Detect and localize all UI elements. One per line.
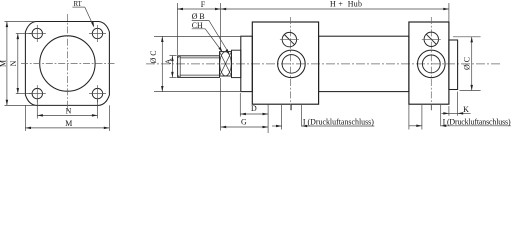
dimension M (bottom) — [25, 105, 109, 130]
svg-text:N: N — [9, 60, 18, 66]
flange plate outline — [25, 22, 109, 106]
hex nut CH — [220, 52, 232, 76]
svg-text:M: M — [0, 60, 8, 67]
bolt hole bottom-left — [32, 88, 42, 98]
rear end cap — [409, 22, 449, 104]
front end cap — [252, 22, 318, 104]
dimension O C (left) — [154, 36, 241, 91]
svg-text:D: D — [251, 104, 257, 113]
nut cross diagonals — [220, 52, 232, 76]
dimension A (rod diameter) — [170, 56, 177, 78]
rod bearing boss — [232, 50, 241, 77]
bolt hole top-right — [92, 28, 102, 38]
centerline vertical — [66, 14, 68, 113]
dimension D (front) — [240, 93, 268, 133]
rear boss stub — [449, 40, 458, 90]
bolt hole top-left — [32, 28, 103, 99]
svg-text:F: F — [201, 0, 206, 9]
rear tie-rod screw — [424, 32, 438, 46]
dimension N (left vertical) — [16, 34, 32, 94]
bolt hole bottom-right — [92, 88, 102, 98]
piston rod (threaded) — [178, 56, 220, 78]
svg-text:K: K — [463, 105, 469, 114]
rod thread core lines — [180, 57, 220, 59]
dimension N (bottom) — [37, 99, 97, 118]
label I (Druckluftanschluss) rear with leader underline — [441, 125, 511, 127]
rear cap centerline — [430, 17, 432, 110]
dimension K (rear) — [441, 92, 470, 116]
svg-text:H + Hub: H + Hub — [330, 0, 362, 9]
svg-text:Ø C: Ø C — [149, 51, 158, 64]
svg-text:Ø C: Ø C — [462, 57, 471, 70]
svg-text:G: G — [241, 118, 247, 127]
nut ellipse — [220, 52, 231, 76]
cylinder barrel — [319, 36, 409, 91]
rod tip chamfers — [178, 56, 180, 58]
rear port position marks — [409, 105, 441, 130]
dimension F (top) — [177, 3, 220, 55]
bolt crosshairs — [29, 25, 106, 102]
front collar ring — [241, 36, 253, 91]
dimension H + Hub (top) — [448, 3, 450, 22]
dimension M (left vertical) — [5, 22, 36, 106]
main axis centerline — [146, 63, 500, 65]
front cap centerline — [289, 17, 291, 110]
front port position marks — [272, 105, 302, 130]
svg-text:A: A — [164, 58, 173, 64]
svg-text:I (Druckluftanschluss): I (Druckluftanschluss) — [443, 117, 511, 126]
svg-text:Ø B: Ø B — [192, 12, 205, 21]
svg-text:M: M — [65, 119, 72, 128]
bore circle — [40, 36, 95, 91]
centerline horizontal — [21, 63, 115, 65]
front tie-rod screw — [282, 32, 296, 46]
dimension O C (right) — [453, 37, 481, 91]
svg-text:N: N — [66, 106, 72, 115]
rear port — [418, 50, 446, 78]
dimension G (front) — [221, 78, 269, 131]
label I (Druckluftanschluss) front with leader underline — [302, 125, 375, 127]
front port — [278, 50, 306, 78]
svg-text:I (Druckluftanschluss): I (Druckluftanschluss) — [303, 118, 374, 127]
